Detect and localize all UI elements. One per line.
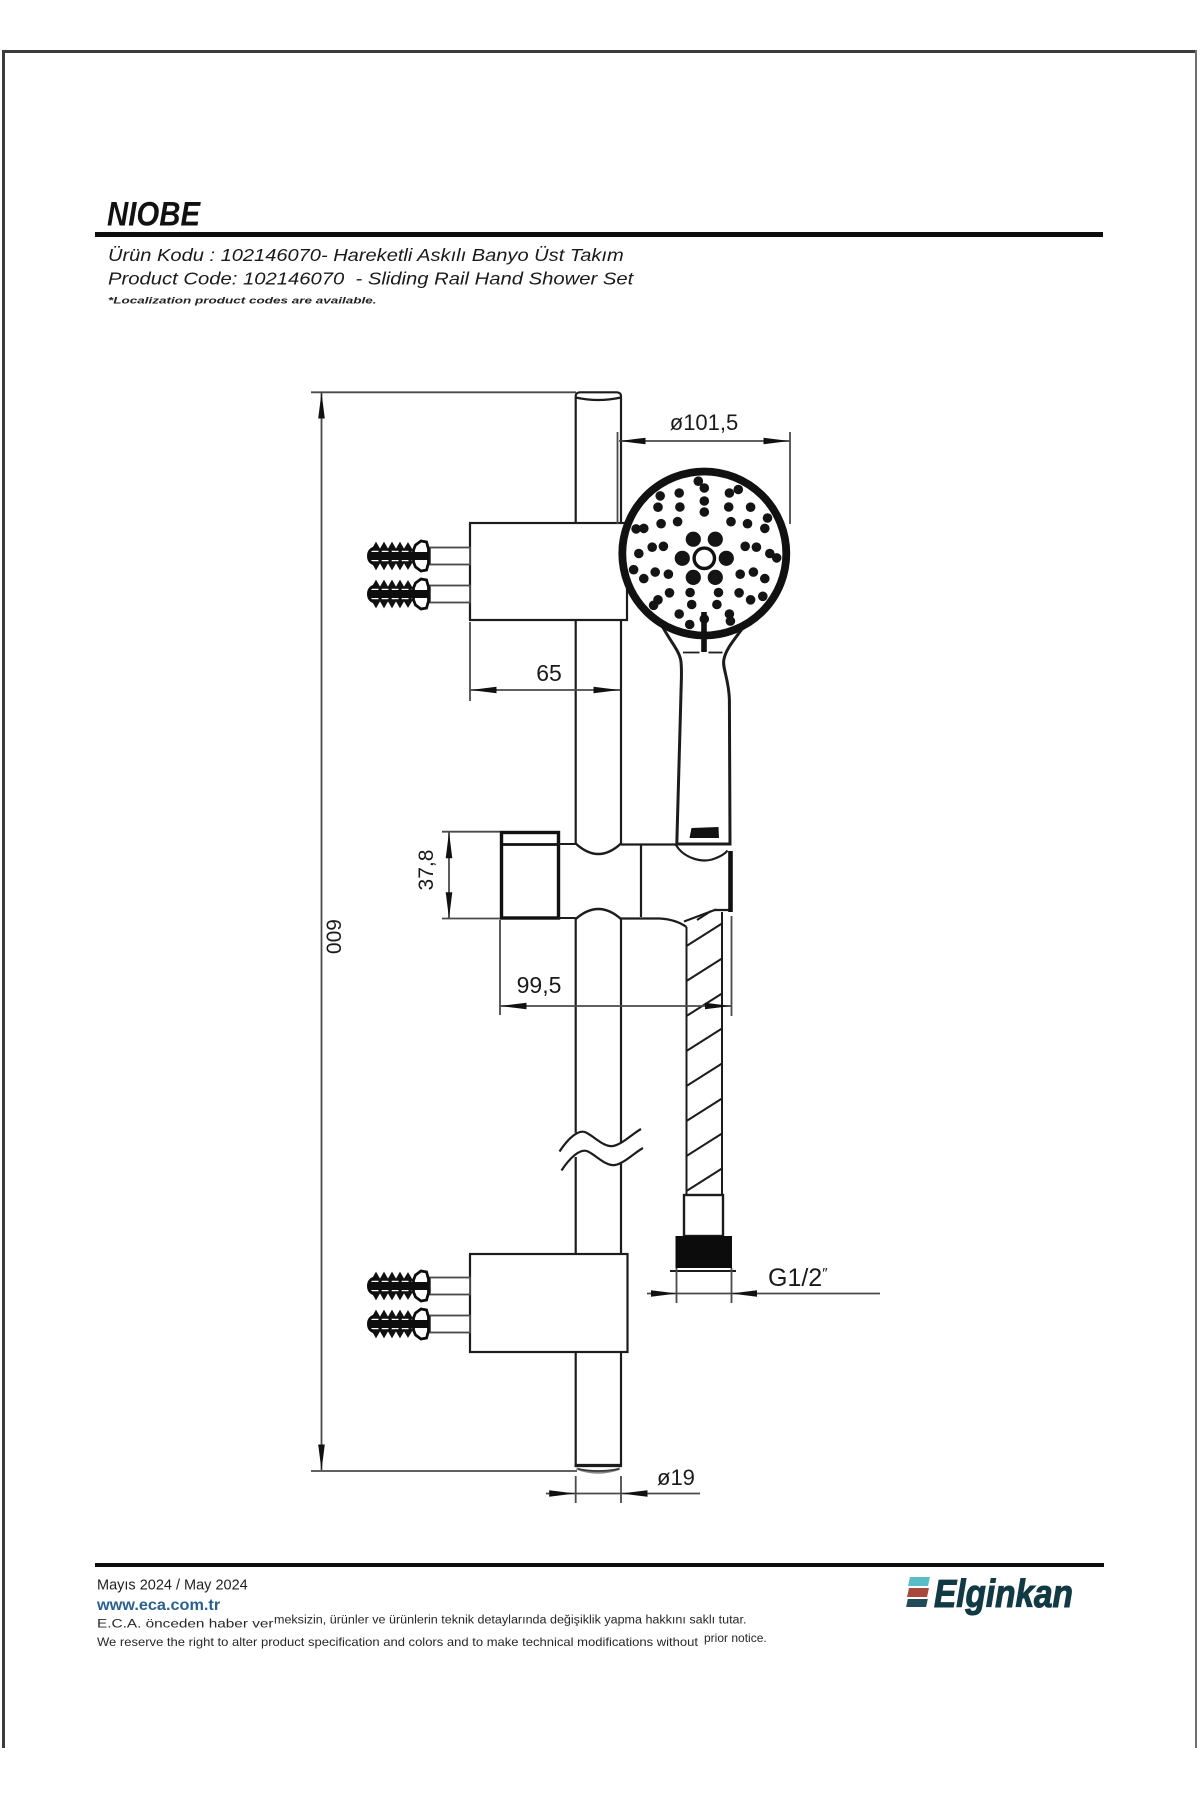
top bracket screw 1 shaft pin bbox=[430, 548, 470, 565]
svg-text:E.C.A. önceden haber ver: E.C.A. önceden haber ver bbox=[97, 1617, 274, 1630]
bottom bracket screw 2 shaft pin bbox=[430, 1316, 470, 1333]
top bracket screw 2 shaft pin bbox=[430, 586, 470, 603]
svg-text:600: 600 bbox=[322, 919, 345, 954]
top bracket screw 2 wall anchor bbox=[369, 579, 430, 609]
dimension G1/2 arrowheads bbox=[651, 1290, 757, 1297]
dimension G1/2 lines bbox=[647, 1268, 880, 1303]
svg-text:Mayıs 2024 / May 2024: Mayıs 2024 / May 2024 bbox=[97, 1578, 248, 1594]
dimension diameter 19 lines bbox=[546, 1476, 700, 1503]
shower head nozzle dots bbox=[629, 476, 782, 629]
page frame left border bbox=[2, 50, 5, 1748]
shower hose tube bbox=[687, 912, 723, 1195]
sliding rail top cap bbox=[576, 392, 621, 400]
svg-text:We reserve the right to alter: We reserve the right to alter product sp… bbox=[97, 1635, 698, 1648]
svg-text:www.eca.com.tr: www.eca.com.tr bbox=[96, 1597, 220, 1614]
svg-text:ø101,5: ø101,5 bbox=[670, 410, 739, 435]
dimension 65 arrowheads bbox=[471, 687, 620, 694]
dimension 600 arrowheads bbox=[318, 393, 325, 1471]
svg-text:37,8: 37,8 bbox=[415, 850, 438, 891]
dimension 37,8 arrowheads bbox=[446, 832, 453, 918]
bottom wall bracket plate bbox=[470, 1254, 628, 1352]
dimension 99,5 arrowheads bbox=[501, 1003, 732, 1010]
Elginkan logo bar red bbox=[907, 1588, 929, 1597]
svg-text:65: 65 bbox=[536, 660, 562, 686]
svg-text:Product Code: 102146070 - Sli: Product Code: 102146070 - Sliding Rail H… bbox=[108, 269, 634, 289]
slider knob bbox=[502, 833, 559, 919]
svg-text:Ürün Kodu : 102146070- Hareket: Ürün Kodu : 102146070- Hareketli Askılı … bbox=[108, 246, 624, 266]
holder right edge bbox=[728, 851, 733, 912]
title underline bbox=[95, 232, 1103, 237]
sliding rail bottom end cap bbox=[575, 1466, 623, 1473]
knob-rail links bbox=[559, 844, 576, 918]
handle label mark bbox=[690, 827, 720, 838]
dimension diameter 101,5 arrowheads bbox=[620, 438, 790, 445]
dimension 65 lines bbox=[470, 622, 620, 701]
Elginkan logo bar dark teal bbox=[906, 1599, 928, 1607]
head bottom tick bbox=[701, 612, 707, 652]
handle joint line bbox=[683, 652, 723, 654]
footer separator line bbox=[95, 1563, 1104, 1567]
svg-text:99,5: 99,5 bbox=[517, 972, 562, 998]
holder collar arcs on rail bbox=[576, 844, 621, 920]
svg-text:meksizin, ürünler ve ürünlerin: meksizin, ürünler ve ürünlerin teknik de… bbox=[274, 1613, 747, 1627]
hose connector black bbox=[676, 1236, 733, 1268]
hose nut bbox=[684, 1195, 723, 1236]
hand shower handle body bbox=[660, 604, 747, 844]
svg-text:ø19: ø19 bbox=[657, 1465, 695, 1490]
svg-text:Elginkan: Elginkan bbox=[934, 1572, 1073, 1616]
dimension 99,5 lines bbox=[500, 916, 732, 1016]
svg-text:NIOBE: NIOBE bbox=[107, 194, 201, 233]
dimension 600 lines bbox=[311, 392, 577, 1471]
bottom bracket screw 1 wall anchor bbox=[369, 1271, 430, 1301]
shower head center flower bbox=[675, 532, 734, 585]
bottom bracket screw 2 wall anchor bbox=[369, 1309, 430, 1339]
hose hatching bbox=[687, 911, 723, 1191]
svg-text:*Localization product codes ar: *Localization product codes are availabl… bbox=[108, 296, 376, 305]
dimension diameter 19 arrowheads bbox=[549, 1490, 647, 1497]
rail break wavy lines bbox=[560, 1129, 644, 1171]
page frame top border bbox=[2, 50, 1197, 53]
sliding rail tube edges bbox=[576, 399, 621, 1466]
Elginkan logo bar cyan bbox=[908, 1577, 930, 1586]
bottom bracket screw 1 shaft pin bbox=[430, 1278, 470, 1295]
page frame right border bbox=[1195, 50, 1198, 1748]
shower head outer ring bbox=[622, 472, 786, 636]
holder arm bbox=[621, 845, 731, 928]
dimension 37,8 lines bbox=[442, 832, 500, 919]
top bracket screw 1 wall anchor bbox=[369, 541, 430, 571]
svg-text:G1/2″: G1/2″ bbox=[768, 1264, 828, 1292]
dimension diameter 101,5 lines bbox=[618, 432, 791, 524]
svg-text:prior notice.: prior notice. bbox=[704, 1631, 767, 1645]
top wall bracket plate bbox=[470, 523, 627, 620]
